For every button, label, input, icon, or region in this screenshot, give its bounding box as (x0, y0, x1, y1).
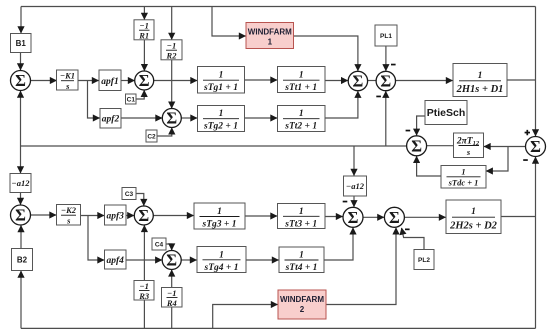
block C3 (122, 188, 136, 200)
svg-text:sTg3 + 1: sTg3 + 1 (202, 220, 237, 230)
svg-text:−K2: −K2 (61, 205, 77, 215)
wire tie line up into sum L1 (20, 91, 22, 146)
sign minus at PL1 input (391, 64, 396, 66)
svg-text:1: 1 (461, 167, 465, 177)
svg-text:Σ: Σ (348, 208, 359, 227)
wire sum C to sum D (363, 216, 384, 218)
svg-text:C4: C4 (155, 242, 164, 249)
wire drop to B1 (20, 7, 22, 34)
wire tie-line error up into sum B (385, 91, 387, 146)
svg-text:B2: B2 (17, 256, 28, 265)
wire K1 to apf1 (78, 80, 99, 82)
block K1 (57, 70, 79, 90)
svg-text:Σ: Σ (138, 206, 149, 225)
svg-text:sTt1 + 1: sTt1 + 1 (284, 83, 317, 93)
wire B2 up to sum L2 (20, 226, 22, 249)
svg-text:1: 1 (299, 109, 304, 119)
block sTg1 (198, 67, 245, 94)
sign minus at sum B lower input (376, 96, 381, 98)
wire -1/R4 up to sum G4 (171, 270, 173, 288)
svg-text:Σ: Σ (389, 208, 400, 227)
windfarm 1 block (246, 23, 294, 49)
SUM-JUNCTIONS (11, 71, 546, 270)
svg-text:−1: −1 (139, 20, 148, 30)
wire sum L2 to K2 (31, 214, 57, 216)
svg-text:sTdc + 1: sTdc + 1 (448, 178, 479, 188)
block apf2 (100, 109, 121, 129)
wire C3 to sum G3 (136, 194, 144, 206)
block PL1 (375, 25, 397, 46)
svg-text:1: 1 (268, 38, 273, 47)
wire sum G1 to sTg1 (154, 80, 197, 82)
block sTt1 (278, 67, 326, 93)
block -1/R1 (134, 20, 154, 40)
sum junction A (348, 71, 367, 90)
svg-text:C1: C1 (127, 97, 136, 104)
svg-text:Σ: Σ (530, 137, 541, 156)
svg-text:s: s (466, 147, 471, 157)
svg-text:WINDFARM: WINDFARM (280, 295, 324, 304)
wire -a12 left to sum L2 (20, 193, 22, 205)
windfarm 2 block (278, 290, 326, 319)
svg-text:C3: C3 (125, 191, 134, 198)
svg-text:Σ: Σ (166, 251, 177, 270)
svg-text:Σ: Σ (15, 206, 26, 225)
wire sum B to 2H1s+D1 (396, 80, 453, 82)
svg-text:sTt2 + 1: sTt2 + 1 (284, 122, 317, 132)
svg-text:1: 1 (219, 71, 224, 81)
block B1 (11, 34, 32, 53)
svg-text:sTg4 + 1: sTg4 + 1 (204, 263, 239, 273)
block sTt3 (278, 204, 326, 229)
svg-text:R4: R4 (166, 298, 177, 308)
svg-text:apf1: apf1 (101, 77, 118, 87)
sign minus at sum R lower input (523, 159, 528, 161)
wire branch into sTdc (486, 147, 508, 172)
wire WINDFARM2 up into sum D (326, 228, 396, 305)
block K2 (57, 205, 81, 226)
svg-text:C2: C2 (147, 134, 156, 141)
block sTt4 (279, 247, 324, 273)
wire C2 to sum G2 (157, 128, 172, 136)
block C2 (146, 130, 157, 142)
svg-text:apf4: apf4 (106, 256, 124, 266)
block sTg3 (194, 203, 245, 229)
sum junction G3 (134, 206, 153, 225)
sum junction L1 (11, 71, 31, 91)
block -a12 left (10, 174, 31, 193)
wire right bus up into sum R (535, 157, 537, 328)
block -1/R4 (162, 288, 183, 308)
block 1/sTdc+1 (441, 166, 486, 189)
wire bottom feedback bus (21, 327, 536, 329)
svg-text:apf3: apf3 (106, 212, 124, 222)
svg-text:1: 1 (299, 71, 304, 81)
wire apf4 to sum G4 (126, 259, 162, 261)
wire 2H2s+D2 output to right bus (501, 216, 536, 218)
sum junction R (526, 137, 546, 157)
svg-text:s: s (65, 81, 70, 91)
svg-text:PL2: PL2 (418, 257, 430, 264)
wire 2H1s+D1 output to right bus (507, 79, 536, 81)
svg-text:sTt4 + 1: sTt4 + 1 (285, 263, 318, 273)
wire sTg2 to sTt2 (245, 117, 278, 119)
wire sum G2 to sTg2 (181, 117, 197, 119)
svg-text:PL1: PL1 (380, 33, 392, 40)
svg-text:B1: B1 (16, 39, 27, 48)
block -1/R3 (134, 281, 154, 301)
wire -1/R3 up to sum G3 (143, 225, 145, 280)
svg-text:−a12: −a12 (12, 178, 31, 188)
wire sTt2 up into sum A (325, 91, 358, 118)
wire K2 to apf3 (81, 215, 105, 217)
svg-text:−1: −1 (167, 40, 176, 50)
sign minus at PL2 input (405, 229, 410, 231)
sum junction G2 (162, 109, 181, 128)
wire sum A to sum B (368, 80, 377, 82)
sign minus at -a12 input to sum C (343, 201, 348, 203)
wire WINDFARM1 to sum A (294, 36, 358, 71)
block C1 (126, 94, 137, 104)
wire split down to apf4 (88, 216, 104, 261)
svg-text:1: 1 (217, 207, 222, 217)
block 2piT12/s (454, 133, 484, 158)
wire right bus down into sum R (535, 7, 537, 137)
wire sTt4 up into sum C (324, 228, 353, 260)
block PtieSch (425, 101, 467, 125)
sum junction B (376, 71, 395, 90)
block 2H1s+D1 (453, 64, 507, 97)
sign minus at PtieSch input (406, 130, 411, 132)
wire split down to apf2 (88, 81, 100, 119)
svg-text:−a12: −a12 (346, 181, 365, 191)
block PL2 (414, 250, 434, 270)
SIGN LABELS (343, 64, 530, 231)
wire -1/R4 down to bottom bus (171, 307, 173, 328)
svg-text:WINDFARM: WINDFARM (248, 28, 292, 37)
block -1/R2 (161, 40, 182, 60)
wire apf3 to sum G3 (126, 215, 134, 217)
wire -1/R2 to sum G2 (171, 60, 173, 108)
wire sum G3 to sTg3 (153, 215, 193, 217)
sum junction G1 (135, 71, 154, 90)
wire PtieSch to sum M (417, 116, 425, 135)
wire apf1 to sum G1 (121, 80, 135, 82)
svg-text:−1: −1 (139, 281, 148, 291)
wire PL2 to sum D (402, 228, 424, 250)
wire sTg3 to sTt3 (245, 215, 277, 217)
wire -1/R3 down to bottom bus (143, 300, 145, 328)
sign plus at sum R upper input (525, 132, 530, 134)
sum junction D (384, 207, 404, 227)
wire C1 to sum G1 (136, 90, 144, 99)
block B2 (12, 249, 33, 271)
wire sTt3 to sum C (325, 216, 343, 218)
svg-text:−K1: −K1 (60, 71, 75, 81)
sum junction C (343, 207, 363, 227)
wire sTg1 to sTt1 (245, 79, 278, 81)
BOXES (10, 20, 507, 307)
svg-text:R2: R2 (166, 50, 178, 60)
block apf1 (99, 70, 121, 91)
wire PL1 to sum B (385, 46, 387, 71)
wire -1/R1 to sum G1 (143, 40, 145, 71)
wire sum L1 output to K1 (31, 80, 57, 82)
svg-text:Σ: Σ (15, 71, 26, 90)
svg-text:2: 2 (300, 305, 305, 314)
wire bottom bus up into B2 (20, 271, 22, 328)
wire top line to WINDFARM1 (212, 7, 246, 37)
wire 2piT12 to sum M (427, 145, 454, 147)
block apf4 (105, 250, 127, 269)
wire apf2 to sum G2 (121, 117, 162, 119)
wire tie line down to -a12 left (20, 146, 22, 173)
block sTt2 (278, 106, 326, 132)
svg-text:1: 1 (219, 250, 224, 260)
svg-text:sTt3 + 1: sTt3 + 1 (284, 219, 317, 229)
svg-text:PtieSch: PtieSch (427, 107, 466, 119)
svg-text:1: 1 (299, 251, 304, 261)
svg-text:−1: −1 (167, 288, 176, 298)
wire sTt1 to sum A (325, 80, 348, 82)
wire sTg4 to sTt4 (246, 259, 279, 261)
wire top feedback line (21, 6, 536, 8)
svg-text:1: 1 (299, 207, 304, 217)
wire tie line down to -a12 right (353, 146, 355, 176)
wire C4 to sum G4 (166, 244, 172, 250)
block C4 (152, 238, 166, 250)
wire sum M output long tie line (21, 145, 407, 147)
block sTg2 (198, 106, 245, 132)
svg-text:apf2: apf2 (102, 115, 120, 125)
wire top line into -1/R2 (171, 7, 173, 40)
svg-text:1: 1 (219, 109, 224, 119)
wire sum D to 2H2s+D2 (404, 216, 445, 218)
sum junction L2 (11, 205, 31, 225)
svg-text:sTg1 + 1: sTg1 + 1 (203, 83, 238, 93)
svg-text:Σ: Σ (380, 72, 391, 91)
svg-text:1: 1 (471, 207, 476, 217)
svg-text:Σ: Σ (166, 109, 177, 128)
svg-text:Σ: Σ (411, 136, 422, 155)
fraction bars (61, 30, 501, 297)
svg-text:Σ: Σ (353, 72, 364, 91)
wire sum R output into 2piT12 (484, 146, 526, 148)
wire -a12 right to sum C (353, 196, 355, 207)
svg-text:R1: R1 (138, 30, 149, 40)
svg-text:2H1s + D1: 2H1s + D1 (456, 84, 504, 95)
svg-text:2H2s + D2: 2H2s + D2 (449, 221, 498, 232)
block 2H2s+D2 (446, 200, 501, 234)
wire bottom bus to WINDFARM2 (213, 305, 278, 329)
svg-text:R3: R3 (138, 291, 150, 301)
svg-text:1: 1 (478, 71, 483, 81)
block sTg4 (197, 247, 246, 273)
wire sum G4 to sTg4 (181, 259, 196, 261)
sum junction M (407, 136, 427, 156)
svg-text:Σ: Σ (139, 71, 150, 90)
wire B1 to sum L1 (20, 53, 22, 71)
wire sTdc to sum M (417, 156, 441, 176)
wire top line into -1/R1 (143, 7, 145, 20)
svg-text:sTg2 + 1: sTg2 + 1 (203, 122, 238, 132)
block -a12 right (344, 176, 367, 196)
svg-text:s: s (66, 216, 71, 226)
sum junction G4 (162, 251, 181, 270)
block apf3 (105, 205, 127, 225)
